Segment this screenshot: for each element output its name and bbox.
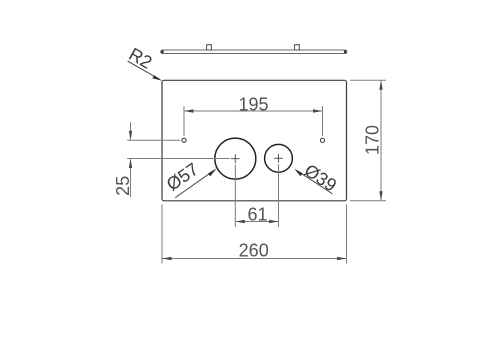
hole Ø57 circle — [215, 138, 256, 179]
hole Ø57 center mark — [231, 155, 239, 163]
svg-text:195: 195 — [238, 94, 268, 114]
dimension 195 extension lines — [184, 107, 323, 136]
svg-text:Ø39: Ø39 — [301, 160, 340, 195]
hole Ø39 circle — [265, 144, 293, 172]
top view bar (plate side view) — [161, 50, 347, 54]
dimension 260 extension lines — [162, 205, 347, 263]
svg-text:61: 61 — [247, 204, 267, 224]
dimension 61 extension line from Ø39 center — [278, 165, 280, 227]
dimension 61 extension line from Ø57 center — [234, 165, 236, 227]
leader Ø39 — [298, 171, 333, 194]
dimension 195 line — [185, 110, 322, 112]
svg-text:170: 170 — [363, 125, 383, 155]
dimension 25 extension line bottom / circle centerline — [128, 158, 230, 160]
dimension 170 extension lines — [351, 80, 386, 201]
leader Ø57 — [176, 171, 214, 198]
svg-text:Ø57: Ø57 — [163, 159, 202, 195]
dimension 170 line — [380, 81, 382, 200]
leader R2 — [128, 61, 159, 79]
top view bar left end cap — [161, 50, 164, 53]
top view clip tab left — [207, 45, 212, 50]
dimension 260 line — [163, 258, 346, 260]
mounting hole left — [182, 138, 186, 142]
dimension 25 extension line top — [128, 139, 180, 141]
top view clip tab right — [295, 45, 300, 50]
plate outline rectangle — [162, 80, 347, 201]
mounting hole right — [320, 138, 324, 142]
svg-text:260: 260 — [239, 241, 269, 261]
hole Ø39 center mark — [275, 154, 283, 162]
dimension 61 line — [236, 221, 277, 223]
dimension 25 arrows — [130, 123, 132, 198]
svg-text:R2: R2 — [126, 44, 156, 73]
svg-text:25: 25 — [113, 176, 133, 196]
top view bar right end cap — [344, 50, 347, 53]
